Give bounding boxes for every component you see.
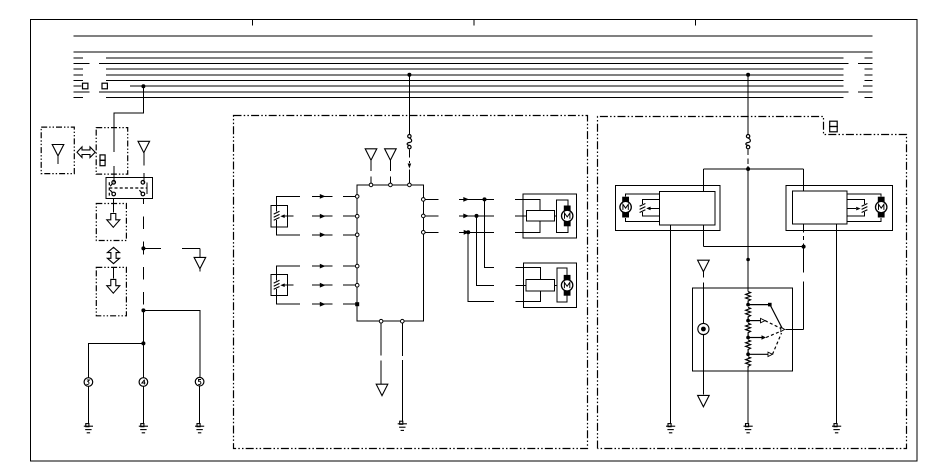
junction dot rail1 xyxy=(141,246,145,250)
ECU bottom wire 2 xyxy=(401,323,403,421)
connector square 1 on bus 8 xyxy=(83,83,88,89)
dashed box antenna left xyxy=(41,127,74,174)
left row arrow markers xyxy=(320,194,326,199)
blower motor unit lower xyxy=(515,263,576,307)
triangle marker ECU bottom xyxy=(376,384,388,395)
ground circle A xyxy=(84,378,93,387)
servo R motor wires xyxy=(847,194,881,222)
ECU pins right xyxy=(422,198,426,235)
rail2 wire xyxy=(143,310,200,377)
junction dot ill rail xyxy=(802,245,806,249)
ground circle C xyxy=(195,377,204,386)
thermistor 1 element xyxy=(274,211,285,220)
servo R control rect xyxy=(792,191,847,224)
motor symbol servo L xyxy=(620,197,631,218)
ECU pin left 6 solid xyxy=(355,302,359,306)
switch contacts xyxy=(748,305,782,355)
junction dot bus8-left xyxy=(141,84,145,88)
wire rail to servo L xyxy=(702,169,704,192)
resistor tap dots xyxy=(746,303,750,356)
ECU bottom wire 1 xyxy=(380,323,382,384)
triangle marker mid-left xyxy=(194,257,206,268)
ECU pin top 3 xyxy=(408,183,412,187)
bus wire 9 xyxy=(74,91,873,93)
inline connector pair on right wire xyxy=(746,135,751,149)
splice marker xyxy=(408,164,412,169)
sensor 1 wires xyxy=(277,196,300,234)
triangle marker ECU top 1 xyxy=(365,149,377,160)
servo L bottom wire to ill rail xyxy=(702,225,704,247)
servo R position sensor xyxy=(856,204,867,213)
triangle marker ill 2 xyxy=(698,395,710,406)
relay pin top-right xyxy=(141,181,145,185)
servo L position sensor xyxy=(640,204,651,213)
contact mark 4 xyxy=(768,352,773,356)
rail3 wire xyxy=(88,343,143,377)
bus wire 10 xyxy=(74,97,873,99)
double horizontal arrow symbol xyxy=(77,147,95,158)
connector square 2 on bus 8 xyxy=(102,83,107,89)
left row link segments xyxy=(312,196,355,304)
ECU pin top 2 xyxy=(389,183,393,187)
relay pin top-left xyxy=(112,181,116,185)
servo motor unit right outer box xyxy=(786,185,892,230)
illumination rail xyxy=(703,246,803,248)
triangle marker ECU top 2 xyxy=(385,149,397,160)
frame tick 3 xyxy=(694,20,696,26)
relay pin bottom-right xyxy=(141,192,145,196)
right row wires xyxy=(425,199,494,232)
bus wire 8 xyxy=(74,85,873,87)
ground symbol right 1 xyxy=(666,424,675,433)
bus wire 7 xyxy=(74,80,873,82)
relay pin bottom-left xyxy=(112,192,116,196)
wire bus to right units xyxy=(747,75,749,135)
dashed box arrow 2 xyxy=(96,267,126,315)
resistor bottom wire xyxy=(747,368,749,423)
servo L motor wires xyxy=(626,194,660,222)
junction dot feed rail xyxy=(746,167,750,171)
contact mark 2 xyxy=(761,318,766,322)
triangle marker ill 1 xyxy=(698,260,710,271)
splice dot xyxy=(746,258,750,262)
wire rail down to switch xyxy=(747,169,749,292)
illumination bulb xyxy=(698,323,709,334)
heater control switch box xyxy=(693,288,793,371)
bus wire 1 xyxy=(74,35,873,37)
right row arrow markers xyxy=(463,197,469,202)
wire bus to ECU xyxy=(408,75,410,135)
frame tick 2 xyxy=(473,20,475,26)
hollow down arrow 2 xyxy=(107,279,120,293)
junction dot bus6-right xyxy=(746,73,750,77)
contact mark 1 xyxy=(768,303,772,307)
connector 2-square symbol xyxy=(100,155,105,166)
triangle marker right of mid box xyxy=(138,141,150,152)
motor symbol lower xyxy=(561,275,572,296)
servo motor unit left outer box xyxy=(615,185,720,230)
ground symbol C xyxy=(195,424,204,433)
wiper to feed wire xyxy=(786,329,804,331)
wire relay to arrow box 1 xyxy=(113,199,115,213)
thermistor sensor 1 box xyxy=(271,206,288,227)
rail to triangle marker xyxy=(143,248,200,257)
motor symbol servo R xyxy=(876,197,887,218)
hollow down arrow 1 xyxy=(107,214,120,228)
ground wire A xyxy=(87,386,89,424)
switch linkage dashed xyxy=(765,321,782,355)
junction dot bus6-mid xyxy=(407,73,411,77)
ECU box xyxy=(357,185,423,321)
up-down double arrow symbol xyxy=(107,247,119,263)
relay coil bar xyxy=(146,182,148,194)
feed rail xyxy=(703,168,803,170)
branch dots xyxy=(483,197,487,201)
inline connector pair on wire xyxy=(407,135,412,149)
servo R bottom wire to ground xyxy=(836,224,838,424)
thermistor 2 element xyxy=(274,280,285,289)
wire into arrow box 2 xyxy=(113,267,115,278)
MIDDLE DASHED BOX xyxy=(234,116,588,449)
illumination lamp wire xyxy=(702,282,704,394)
ground symbol ECU xyxy=(398,421,407,430)
relay contacts dashed linkage xyxy=(109,182,147,195)
servo R sensor wires xyxy=(847,199,865,216)
RIGHT DASHED BOX xyxy=(598,117,907,449)
servo R bottom wire to rail xyxy=(803,224,805,247)
bus wire 4 xyxy=(74,63,873,65)
ECU pins bottom xyxy=(379,319,404,323)
motor symbol upper xyxy=(562,206,573,227)
junction dot rail3 xyxy=(141,341,145,345)
ground symbol right 2 xyxy=(744,424,753,433)
blower motor unit upper xyxy=(515,194,576,238)
triangle marker in left box xyxy=(52,145,64,156)
wiper hub arrow xyxy=(781,327,785,331)
shielded section right wire xyxy=(747,150,749,170)
ground circle B xyxy=(139,378,148,387)
thermistor sensor 2 box xyxy=(271,274,288,295)
wire rail to servo R xyxy=(803,169,805,191)
dashed box antenna mid xyxy=(96,128,128,175)
frame tick 1 xyxy=(252,20,254,26)
bus wire 2 xyxy=(74,51,873,53)
bus wire 6 xyxy=(74,74,873,76)
ECU pins left xyxy=(355,195,359,287)
shielded wire section xyxy=(408,150,410,184)
ground symbol right 3 xyxy=(832,424,841,433)
ground wire C xyxy=(199,386,201,424)
ECU pin top 1 xyxy=(369,183,373,187)
contact mark 3 xyxy=(762,335,767,339)
shielded wire from relay down xyxy=(142,199,144,311)
servo L control rect xyxy=(660,192,715,225)
junction dot rail2 xyxy=(141,308,145,312)
branch wires to lower blower xyxy=(468,199,494,301)
blower resistor chain xyxy=(746,292,751,369)
ground wire B xyxy=(142,386,144,424)
connector 2-square right box xyxy=(830,121,838,132)
wiper feed wire xyxy=(803,247,805,330)
bus wire 3 xyxy=(74,57,873,59)
servo L bottom wire to ground xyxy=(670,225,672,424)
bus wire 5 xyxy=(74,68,873,70)
servo L sensor wires xyxy=(642,199,659,216)
sensor 2 wires xyxy=(277,266,300,304)
dashed box arrow 1 xyxy=(96,204,126,241)
relay box xyxy=(106,178,153,199)
ground symbol B xyxy=(139,424,148,433)
wire bus tap to relay xyxy=(114,86,143,182)
ground symbol A xyxy=(84,424,93,433)
